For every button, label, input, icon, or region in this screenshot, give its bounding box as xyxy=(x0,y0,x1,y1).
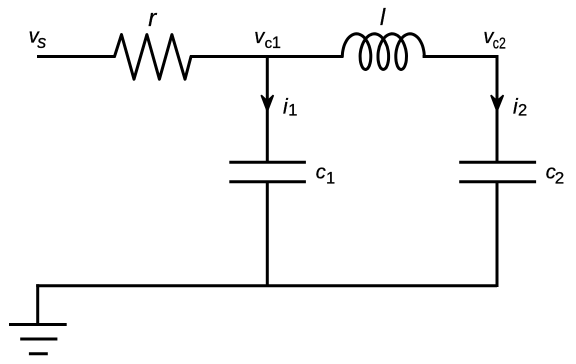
current arrow i2 xyxy=(491,95,504,111)
svg-text:1: 1 xyxy=(272,34,281,52)
wire from rail down to ground xyxy=(36,284,39,324)
wire from inductor to node vc2 xyxy=(423,55,499,58)
svg-text:2: 2 xyxy=(555,168,564,187)
current arrow i1 xyxy=(261,95,273,111)
svg-text:l: l xyxy=(380,4,386,30)
wire from capacitor c1 down to bottom rail xyxy=(266,182,269,287)
svg-text:1: 1 xyxy=(288,101,297,119)
wire from resistor to node vc1 and on to inductor xyxy=(190,55,343,58)
svg-text:c2: c2 xyxy=(493,35,506,52)
svg-text:r: r xyxy=(148,5,157,32)
capacitor C2 bottom plate xyxy=(459,180,536,183)
vertical wire node vc2 down to capacitor c2 xyxy=(496,55,499,162)
ground symbol top bar xyxy=(9,323,67,326)
inductor l (cycloid coil) xyxy=(342,34,424,70)
capacitor C1 top plate xyxy=(229,161,306,164)
svg-text:1: 1 xyxy=(326,170,335,188)
svg-text:2: 2 xyxy=(518,101,527,119)
svg-text:c: c xyxy=(316,162,326,184)
capacitor C2 top plate xyxy=(459,161,536,164)
ground symbol middle bar xyxy=(20,338,57,341)
wire from capacitor c2 down to bottom rail xyxy=(496,182,499,287)
bottom ground rail wire xyxy=(38,286,497,287)
resistor r xyxy=(115,35,192,80)
svg-text:v: v xyxy=(254,26,265,48)
wire from source vs to resistor xyxy=(37,55,116,58)
svg-text:s: s xyxy=(37,32,46,52)
ground symbol bottom bar xyxy=(29,352,48,355)
capacitor C1 bottom plate xyxy=(229,180,306,183)
vertical wire node vc1 down to capacitor c1 xyxy=(266,55,269,162)
